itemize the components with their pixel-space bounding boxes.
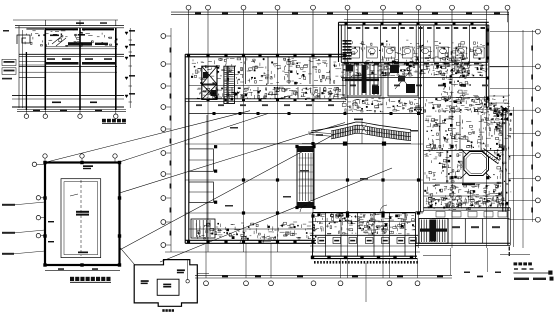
grand stair tread band outlines — [331, 125, 411, 141]
section detail : dark floor slab band — [46, 62, 116, 65]
leader line from pool plan to escalator — [120, 134, 336, 250]
key plan inner hall rectangle — [157, 279, 179, 295]
main plan right exterior wall — [503, 107, 514, 247]
left band room clutter — [266, 84, 267, 85]
main plan left dimension line and bubbles — [161, 28, 171, 252]
atrium diagonal gallery strip — [481, 149, 499, 164]
right band rooms clutter — [384, 71, 387, 73]
left pool plan : outer wall — [45, 163, 120, 266]
lobby bottom connector walls — [189, 212, 424, 229]
legend bottom note text — [514, 277, 554, 281]
left band elevator cores — [202, 66, 217, 99]
main plan wing right wall and terrace — [486, 12, 508, 107]
left pool plan : outside leader labels — [2, 202, 45, 255]
bottom wing interior clutter — [368, 228, 371, 230]
leader line from pool plan right edge to stair arc — [120, 123, 346, 194]
left band tread stair strip — [224, 66, 235, 103]
bottom-left stair corner — [191, 219, 215, 238]
bottom wing colonnade tick strip — [314, 261, 418, 264]
bottom-right below-block marks — [500, 247, 530, 257]
grand stair left lead-in steps — [308, 132, 331, 136]
key plan outline — [134, 260, 197, 307]
key plan text labels — [141, 269, 185, 287]
right column rooms clutter — [484, 117, 487, 119]
atrium column dots — [450, 145, 489, 185]
section detail : grid bubbles — [24, 110, 118, 118]
bottom-right block top clutter — [458, 196, 461, 198]
lobby annotation marks — [225, 127, 418, 242]
main plan corridor walls right band — [341, 62, 488, 97]
main plan top grid bubbles — [186, 5, 510, 10]
left pool plan : center dashed axis — [80, 180, 82, 256]
section detail : left level labels — [2, 30, 16, 79]
main plan small rooms left column — [189, 115, 213, 240]
key plan caption — [162, 309, 174, 312]
right band corridor texts — [350, 85, 488, 87]
right band stair core dark block — [343, 63, 381, 96]
main plan wall below left band — [185, 99, 346, 102]
key plan grid bubble and riser line — [186, 260, 209, 283]
section detail : clutter — [83, 29, 85, 31]
main plan top-right wing exterior wall — [339, 19, 489, 62]
left pool plan : caption — [70, 277, 111, 283]
top-right wing guest rooms — [345, 25, 487, 62]
mid-right dense equipment room — [450, 92, 454, 94]
left pool plan : inner basin rectangle — [61, 179, 101, 258]
grand stair tread hatching — [332, 125, 410, 141]
section detail : dark beams and fixtures — [47, 34, 112, 103]
lobby column dots — [214, 142, 420, 218]
main plan corridor line left band — [189, 85, 346, 87]
wing corridor dark dashes — [344, 63, 479, 65]
escalator pair — [295, 145, 315, 209]
main plan bottom-left exterior wall — [185, 240, 316, 243]
leader line from pool plan top-left to lobby — [47, 111, 250, 162]
section detail : columns — [26, 20, 115, 110]
main plan horizontal grid lines in lobby — [185, 144, 423, 213]
grand stair chord line — [302, 120, 411, 144]
right band second core — [388, 63, 418, 96]
main plan right column room walls — [424, 115, 504, 196]
main plan bottom dimension line and bubbles — [165, 248, 501, 286]
grand stair apex marks — [354, 119, 367, 133]
legend title text — [514, 262, 532, 265]
right edge shaft clutter — [497, 124, 498, 125]
main plan corridor vertical right side — [421, 26, 424, 212]
door arcs lower band — [240, 205, 387, 243]
left band dimension dash row — [196, 104, 334, 106]
left pool plan : grid bubbles — [32, 154, 117, 238]
leader line to key plan — [120, 168, 393, 265]
main plan bottom-right block walls — [415, 208, 510, 246]
bottom wing outline — [310, 213, 418, 260]
left pool plan : text labels — [48, 165, 93, 253]
section detail 2-2 : top boundary lines — [13, 20, 124, 29]
bottom-left strip clutter — [217, 228, 220, 230]
main plan top dimension line — [171, 12, 509, 15]
section detail : top-left hook fitting — [17, 35, 30, 44]
left pool plan : corner and edge columns — [43, 161, 121, 267]
main plan room divider walls left band — [216, 57, 338, 99]
section detail : right level marks — [125, 28, 135, 108]
grand stair top chevron line — [311, 122, 411, 131]
section detail : caption 2-2 — [102, 119, 126, 124]
left band lower fixtures clutter — [329, 92, 333, 94]
left pool plan : bottom dimension line — [45, 268, 120, 270]
main plan lobby edge line with columns — [189, 112, 424, 115]
leader line from pool plan top-right to lobby — [115, 114, 268, 164]
bottom-right dark stair block — [419, 219, 448, 244]
main plan right edge lower dense patch — [494, 109, 496, 111]
main plan left exterior wall — [185, 54, 189, 243]
atrium octagon — [461, 149, 491, 178]
section detail : bottom dimension line — [17, 110, 126, 112]
main plan top-left exterior wall — [185, 54, 346, 57]
section detail : left sheet border — [19, 26, 23, 108]
section detail : floor slab lines — [12, 47, 124, 107]
main plan vertical grid lines — [189, 10, 508, 302]
legend scale line — [513, 268, 552, 275]
top-right wing clutter — [444, 48, 446, 50]
main plan right dimension line and bubbles — [490, 29, 540, 248]
